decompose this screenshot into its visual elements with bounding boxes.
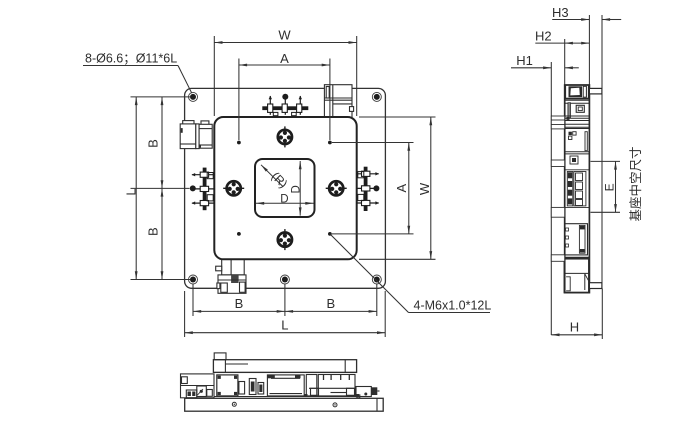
svg-text:W: W xyxy=(278,28,291,43)
svg-text:A: A xyxy=(280,51,289,66)
svg-text:D: D xyxy=(280,193,288,205)
svg-text:4-M6x1.0*12L: 4-M6x1.0*12L xyxy=(414,298,492,312)
svg-text:D: D xyxy=(290,185,302,193)
svg-text:基座中空尺寸: 基座中空尺寸 xyxy=(628,146,643,221)
svg-text:8-Ø6.6；Ø11*6L: 8-Ø6.6；Ø11*6L xyxy=(85,52,177,66)
svg-text:B: B xyxy=(145,139,160,148)
svg-text:B: B xyxy=(145,227,160,236)
svg-text:L: L xyxy=(281,317,288,332)
svg-text:L: L xyxy=(124,188,139,195)
svg-text:E: E xyxy=(603,183,617,191)
svg-text:B: B xyxy=(235,296,244,311)
svg-text:A: A xyxy=(394,184,409,193)
svg-text:H3: H3 xyxy=(552,5,569,20)
svg-text:B: B xyxy=(326,296,335,311)
svg-text:H2: H2 xyxy=(535,29,552,44)
svg-text:H: H xyxy=(570,319,579,334)
svg-text:W: W xyxy=(417,182,432,195)
svg-text:H1: H1 xyxy=(516,53,533,68)
